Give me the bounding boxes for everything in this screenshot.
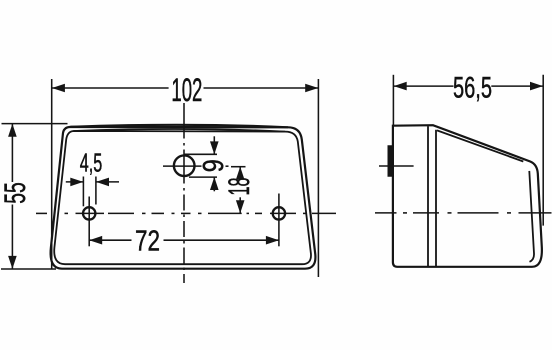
svg-text:18: 18 [223, 178, 256, 196]
mounting hole right (dia 4.5) [273, 207, 285, 219]
18 tick top [231, 166, 246, 168]
hole1 vertical centerline / leader [88, 197, 90, 247]
arrow 72 left [89, 236, 102, 245]
arrow 55 up [8, 124, 17, 137]
dia 9 tick top [184, 153, 217, 155]
dimension 4,5 left arrow [66, 181, 83, 183]
side view lens separation line 1 [427, 126, 429, 266]
side view bulb axis crosshair [379, 165, 414, 167]
arrow 102 left [52, 84, 65, 93]
side view mounting tab [388, 146, 393, 176]
extension line 56,5 right [542, 75, 544, 226]
dimension line 55 [11, 124, 13, 182]
svg-text:72: 72 [135, 225, 160, 257]
vertical centerline through big hole [183, 103, 185, 283]
dimension line 56,5 [394, 85, 454, 87]
svg-text:55: 55 [0, 182, 32, 204]
front view inner lens line [54, 131, 311, 264]
dimension 4,5 right arrow [96, 181, 119, 183]
centerline dot right of label 9 [226, 165, 229, 167]
extension line 56,5 left (merges with body edge) [392, 75, 394, 126]
dimension line 72 [89, 239, 131, 241]
arrow 56,5 right [530, 82, 543, 91]
extension lines 4,5 [82, 177, 84, 207]
dimension 18 top arrow [239, 167, 241, 178]
arrow 56,5 left [394, 82, 407, 91]
side view main centerline [375, 212, 552, 214]
svg-text:9: 9 [198, 159, 230, 172]
big hole (bulb opening, dia 9) [174, 155, 195, 176]
hole2 vertical centerline / leader [278, 194, 280, 247]
extension line 55 bottom [1, 268, 56, 270]
front view outer outline [51, 127, 316, 269]
extension line 102 right [317, 79, 319, 277]
dia 9 tick bottom [189, 176, 217, 178]
arrow 102 right [305, 84, 318, 93]
svg-text:56,5: 56,5 [453, 71, 492, 104]
side view outer outline [393, 125, 542, 267]
side view lens separation line 2 [435, 130, 437, 266]
dimension 9 bottom arrow [213, 177, 215, 191]
extension line 55 top [2, 123, 68, 125]
dimension line 102 [52, 87, 169, 89]
main horizontal centerline front view [36, 212, 336, 214]
extension line 102 left [51, 79, 53, 269]
dimension 9 top arrow [213, 136, 215, 154]
dimension 18 bottom arrow [239, 197, 241, 213]
front view inner top edge arc [74, 129, 286, 132]
svg-text:4,5: 4,5 [80, 150, 103, 178]
svg-text:102: 102 [171, 72, 202, 108]
arrow 72 right [266, 236, 279, 245]
front view top edge arc outer [71, 125, 289, 128]
side view inner slope line [437, 130, 523, 161]
mounting hole left (dia 4.5) [83, 207, 95, 219]
big hole horizontal crosshair [163, 165, 202, 167]
arrow 55 down [8, 256, 17, 269]
